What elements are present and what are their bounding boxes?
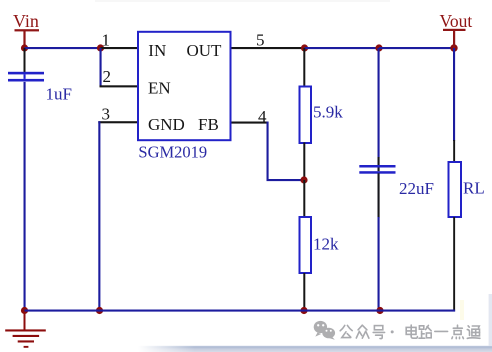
svg-text:GND: GND: [148, 115, 185, 134]
svg-text:3: 3: [102, 104, 111, 123]
wire Vin junction down to C1: [24, 48, 26, 72]
wire node down to R1 top: [303, 48, 305, 87]
wire C2 down to bottom rail: [378, 173, 380, 218]
node 22uF top junction: [375, 44, 382, 51]
svg-text:SGM2019: SGM2019: [138, 143, 207, 162]
watermark text: [340, 325, 480, 339]
wire FB corner down: [267, 122, 269, 181]
node Vout junction: [450, 44, 457, 51]
svg-text:Vout: Vout: [440, 11, 473, 31]
IC U1 SGM2019 voltage regulator: [138, 32, 231, 162]
resistor R2 12k: [300, 217, 340, 273]
wire Vout junction down: [453, 48, 455, 141]
node Vin junction: [21, 44, 28, 51]
wire OUT pin to node 5.9k: [232, 47, 306, 49]
svg-text:5: 5: [256, 30, 265, 49]
wire to EN pin: [100, 85, 138, 87]
svg-text:2: 2: [103, 67, 112, 86]
wire node 22uF down to C2: [378, 48, 380, 158]
node OUT/5.9k junction: [301, 44, 308, 51]
node pin1 junction: [97, 44, 104, 51]
wire node1 to IN pin: [101, 47, 138, 49]
node bottom 22uF junction: [376, 307, 383, 314]
capacitor C1 1uF: [8, 72, 72, 104]
svg-text:5.9k: 5.9k: [313, 103, 343, 122]
resistor RL: [449, 162, 485, 217]
watermark icon: [314, 321, 335, 340]
svg-text:1: 1: [102, 30, 111, 49]
wire FB pin to corner: [232, 122, 269, 124]
wire bottom rail: [25, 310, 456, 312]
wire GND pin down to bottom rail: [98, 121, 100, 311]
wire down to RL top: [453, 140, 455, 163]
wire divider node down to R2 top: [303, 180, 305, 218]
wire to GND pin: [98, 121, 137, 123]
wire node 22uF to Vout junction (top rail): [379, 47, 454, 49]
power flag Vin: [13, 11, 39, 48]
svg-text:IN: IN: [148, 41, 166, 60]
node bottom-left junction: [21, 307, 28, 314]
wire C1 down to bottom rail: [24, 82, 26, 312]
ground: [5, 311, 46, 348]
svg-text:Vin: Vin: [13, 11, 39, 31]
capacitor C2 22uF: [359, 165, 434, 198]
svg-text:4: 4: [258, 107, 267, 126]
svg-text:22uF: 22uF: [399, 179, 434, 198]
resistor R1 5.9k: [300, 87, 344, 144]
wire R1 bottom to divider node: [303, 143, 305, 181]
node bottom 12k junction: [300, 307, 307, 314]
svg-text:EN: EN: [148, 79, 171, 98]
wire node 5.9k to node 22uF (top rail): [305, 47, 380, 49]
svg-text:FB: FB: [198, 115, 219, 134]
svg-text:RL: RL: [463, 179, 485, 198]
power flag Vout: [440, 11, 473, 48]
node bottom GND junction: [96, 307, 103, 314]
svg-text:1uF: 1uF: [46, 85, 72, 104]
wire Vin to node1 (top rail): [25, 47, 101, 49]
svg-text:12k: 12k: [313, 235, 339, 254]
wire FB to divider node: [267, 179, 305, 181]
wire RL bottom to bottom rail: [453, 217, 455, 312]
node divider junction: [300, 176, 307, 183]
svg-text:OUT: OUT: [187, 41, 223, 60]
wire R2 bottom to bottom rail: [303, 273, 305, 312]
wire node1 down to EN level: [100, 48, 102, 87]
